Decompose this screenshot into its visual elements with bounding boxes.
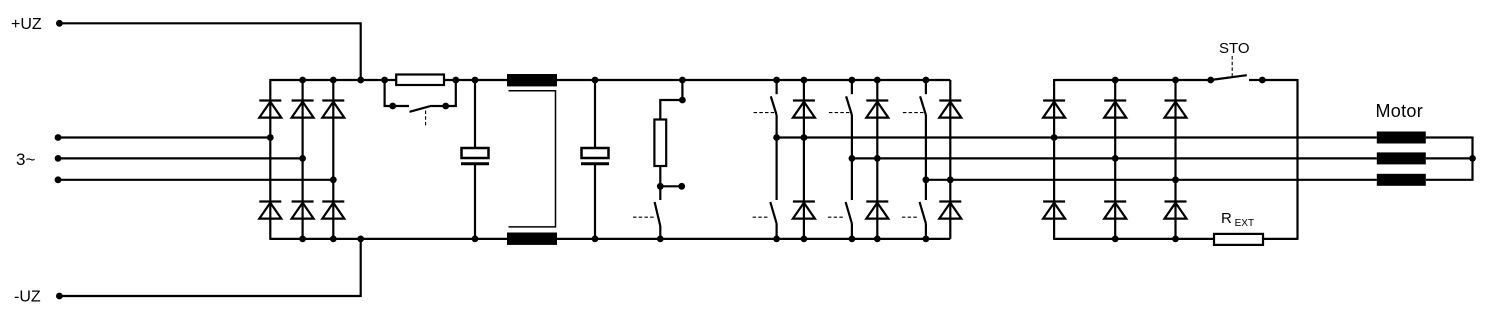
junction brake rectifier leg 2 top <box>1112 77 1119 84</box>
junction brake rectifier leg 3 bottom <box>1172 236 1179 243</box>
diode rectifier D5 (leg3 upper) <box>322 101 344 118</box>
wire leg U freewheel diode column <box>803 80 805 239</box>
wire brake rectifier bottom rail <box>1054 238 1214 240</box>
wire DC- rail <box>270 238 950 240</box>
junction L1 to rectifier leg 1 <box>267 134 274 141</box>
diode rectifier D6 (leg3 lower) <box>322 202 344 219</box>
junction inverter leg U switch column top <box>773 77 780 84</box>
junction leg U midpoint at switch column <box>773 134 780 141</box>
switch brake chopper Q7 <box>633 202 660 239</box>
junction inverter leg V switch column bottom <box>849 236 856 243</box>
wire DC+ rail main section (precharge resistor to inverter) <box>444 79 950 81</box>
resistor precharge R1 <box>396 75 444 86</box>
wire rectifier leg 1 vertical <box>269 79 271 240</box>
junction L3 to rectifier leg 3 <box>330 176 337 183</box>
resistor brake chopper R2 <box>654 120 666 167</box>
node +UZ terminal <box>56 20 63 27</box>
wire motor phase 3 to star point <box>1426 179 1473 181</box>
wire -UZ horizontal <box>59 295 360 297</box>
svg-text:-UZ: -UZ <box>14 289 41 306</box>
wire output phase V <box>852 157 1377 159</box>
node precharge switch left contact <box>389 103 396 110</box>
diode rectifier D1 (leg1 upper) <box>259 101 281 118</box>
diode freewheel D9 (leg V upper) <box>866 101 888 118</box>
junction phase V to brake rectifier leg 2 <box>1112 155 1119 162</box>
diode brake rectifier D17 (leg3 upper) <box>1165 101 1187 118</box>
switch IGBT Q2 (leg U lower) <box>753 202 777 239</box>
svg-text:Motor: Motor <box>1376 101 1424 121</box>
wire external brake terminal stub <box>660 185 681 187</box>
wire leg U switch column middle <box>775 115 777 200</box>
junction motor star point <box>1469 155 1476 162</box>
svg-text:R EXT: R EXT <box>1221 210 1254 229</box>
wire motor phase 2 to star point <box>1426 157 1473 159</box>
inductor choke L2 (DC- rail) <box>507 233 557 245</box>
diode rectifier D3 (leg2 upper) <box>292 101 314 118</box>
diode freewheel D11 (leg W upper) <box>939 101 961 118</box>
junction phase U to brake rectifier leg 1 <box>1051 134 1058 141</box>
switch IGBT Q4 (leg V lower) <box>828 202 852 239</box>
junction -UZ on DC- rail <box>357 236 364 243</box>
winding motor phase 3 <box>1377 174 1426 186</box>
junction precharge branch left on DC+ rail <box>381 77 388 84</box>
junction C2 bottom <box>592 236 599 243</box>
junction leg U midpoint at diode column <box>801 134 808 141</box>
capacitor C1 (DC link) <box>461 80 489 239</box>
wire brake rectifier leg 1 vertical <box>1053 79 1055 240</box>
wire DC+ rail left section (rectifier to precharge resistor) <box>270 79 396 81</box>
wire brake chopper switch upper lead <box>659 186 661 200</box>
wire motor phase 1 to star point <box>1426 136 1473 138</box>
diode freewheel D8 (leg U lower) <box>793 202 815 219</box>
wire input phase L3 <box>58 179 333 181</box>
wire output phase U <box>777 136 1377 138</box>
junction brake chopper midpoint <box>657 183 664 190</box>
wire brake branch jog to resistor <box>660 100 682 120</box>
junction leg W midpoint at switch column <box>923 176 930 183</box>
wire brake branch stub from DC+ rail <box>681 80 683 100</box>
junction C2 top <box>592 77 599 84</box>
wire motor star point vertical <box>1471 137 1473 181</box>
diode freewheel D10 (leg V lower) <box>866 202 888 219</box>
node STO switch left contact <box>1207 77 1214 84</box>
wire precharge bypass right rise <box>446 81 456 107</box>
junction rectifier leg 2 top <box>299 77 306 84</box>
wire R_EXT to right vertical <box>1263 238 1298 240</box>
wire leg V freewheel diode column <box>876 80 878 239</box>
node brake resistor terminal upper <box>679 97 686 104</box>
winding motor phase 2 <box>1377 152 1426 164</box>
node external brake terminal <box>678 183 685 190</box>
junction inverter leg V diode column bottom <box>874 236 881 243</box>
diode brake rectifier D15 (leg2 upper) <box>1104 101 1126 118</box>
junction rectifier leg 2 bottom <box>299 236 306 243</box>
switch STO (safe torque off) <box>1211 56 1263 80</box>
diode brake rectifier D16 (leg2 lower) <box>1104 202 1126 219</box>
core coupling bracket of choke <box>509 91 556 227</box>
wire STO to right vertical <box>1262 79 1297 81</box>
junction inverter leg V switch column top <box>849 77 856 84</box>
winding motor phase 1 <box>1377 132 1426 144</box>
node STO switch right contact <box>1259 77 1266 84</box>
wire +UZ horizontal <box>59 22 360 24</box>
junction inverter leg W switch column bottom <box>923 236 930 243</box>
wire brake circuit right vertical <box>1296 79 1298 240</box>
resistor R_EXT external brake <box>1214 234 1263 245</box>
diode brake rectifier D14 (leg1 lower) <box>1043 202 1065 219</box>
wire brake rectifier top rail <box>1054 79 1211 81</box>
wire +UZ drop to DC+ rail <box>360 22 362 80</box>
svg-text:3~: 3~ <box>16 150 35 169</box>
wire output phase W <box>926 179 1377 181</box>
junction inverter leg U switch column bottom <box>773 236 780 243</box>
junction rectifier leg 3 top <box>330 77 337 84</box>
junction +UZ on DC+ rail <box>357 77 364 84</box>
junction inverter leg U diode column top <box>801 77 808 84</box>
wire -UZ rise to DC- rail <box>360 239 362 297</box>
junction C1 top <box>472 77 479 84</box>
wire input phase L2 <box>58 157 303 159</box>
node input phase L2 terminal <box>55 155 62 162</box>
diode brake rectifier D18 (leg3 lower) <box>1165 202 1187 219</box>
junction inverter leg V diode column top <box>874 77 881 84</box>
node input phase L1 terminal <box>55 134 62 141</box>
wire precharge bypass left drop <box>385 81 393 107</box>
diode freewheel D7 (leg U upper) <box>793 101 815 118</box>
junction leg W midpoint at diode column <box>947 176 954 183</box>
junction precharge branch right on DC+ rail <box>452 77 459 84</box>
switch IGBT Q5 (leg W upper) <box>903 80 926 115</box>
wire leg W switch column middle <box>925 115 927 200</box>
junction brake rectifier leg 2 bottom <box>1112 236 1119 243</box>
switch IGBT Q1 (leg U upper) <box>754 80 777 115</box>
wire rectifier leg 2 vertical <box>302 80 304 239</box>
wire leg W freewheel diode column <box>949 80 951 239</box>
wire rectifier leg 3 vertical <box>332 80 334 239</box>
wire input phase L1 <box>58 136 270 138</box>
switch IGBT Q3 (leg V upper) <box>829 80 852 115</box>
diode freewheel D12 (leg W lower) <box>939 202 961 219</box>
wire brake rectifier leg 3 vertical <box>1174 80 1176 239</box>
junction brake branch on DC+ rail <box>679 77 686 84</box>
diode brake rectifier D13 (leg1 upper) <box>1043 101 1065 118</box>
junction inverter leg W switch column top <box>923 77 930 84</box>
capacitor C2 (DC link) <box>581 80 609 239</box>
junction inverter leg U diode column bottom <box>801 236 808 243</box>
junction brake rectifier leg 3 top <box>1172 77 1179 84</box>
wire brake rectifier leg 2 vertical <box>1114 80 1116 239</box>
junction leg V midpoint at switch column <box>849 155 856 162</box>
wire brake resistor to chopper switch <box>659 166 661 186</box>
junction C1 bottom <box>472 236 479 243</box>
svg-text:STO: STO <box>1219 40 1250 57</box>
diode rectifier D2 (leg1 lower) <box>259 202 281 219</box>
junction L2 to rectifier leg 2 <box>299 155 306 162</box>
inductor choke L1 (DC+ rail) <box>507 74 557 86</box>
junction brake chopper on DC- rail <box>657 236 664 243</box>
diode rectifier D4 (leg2 lower) <box>292 202 314 219</box>
node input phase L3 terminal <box>55 176 62 183</box>
switch IGBT Q6 (leg W lower) <box>902 202 926 239</box>
node -UZ terminal <box>56 293 63 300</box>
switch precharge bypass relay S1 <box>393 106 446 127</box>
junction leg V midpoint at diode column <box>874 155 881 162</box>
node precharge switch right contact <box>442 103 449 110</box>
junction rectifier leg 3 bottom <box>330 236 337 243</box>
wire leg V switch column middle <box>851 115 853 200</box>
junction phase W to brake rectifier leg 3 <box>1172 176 1179 183</box>
svg-text:+UZ: +UZ <box>11 16 42 33</box>
